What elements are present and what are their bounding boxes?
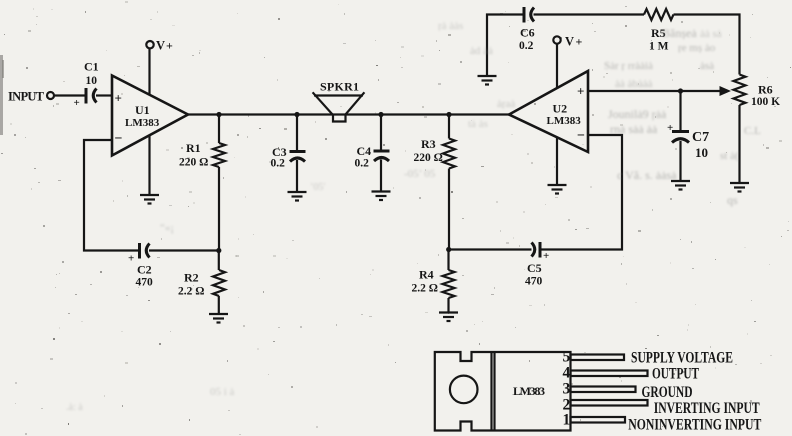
capacitor C6 value 0.2 <box>519 7 535 52</box>
node: junction to C7 <box>678 88 683 93</box>
capacitor C5 value 470 <box>525 242 549 288</box>
ground below U2 <box>548 185 567 194</box>
svg-text:220 Ω: 220 Ω <box>414 152 443 164</box>
svg-text:220 Ω: 220 Ω <box>179 157 208 169</box>
svg-text:R3: R3 <box>421 137 436 151</box>
ground below R6 <box>730 183 749 192</box>
wire: U1 inverting input feedback to C2 <box>84 140 139 251</box>
svg-text:SPKR1: SPKR1 <box>320 80 359 94</box>
svg-text:5: 5 <box>563 349 571 366</box>
wire: C3 to ground <box>296 160 298 192</box>
ground below C6 left leg <box>478 76 497 85</box>
ground below C3 <box>288 192 307 201</box>
svg-text:+: + <box>128 253 134 265</box>
svg-text:100 K: 100 K <box>751 96 780 108</box>
svg-text:C6: C6 <box>520 26 535 40</box>
input terminal INPUT <box>8 90 54 104</box>
wire: C2 to node A <box>149 249 219 251</box>
V+ terminal for U1 <box>146 39 173 53</box>
pin 4 OUTPUT <box>563 365 700 383</box>
node: bus junction to C3 <box>294 112 299 117</box>
resistor R5 value 1 M <box>644 9 674 53</box>
wire: C6 to R5 <box>534 13 645 15</box>
ground below C4 <box>372 192 391 201</box>
svg-text:V: V <box>156 39 165 53</box>
svg-text:C2: C2 <box>137 263 152 277</box>
svg-text:2.2 Ω: 2.2 Ω <box>178 286 204 298</box>
wire: bus to C3 <box>296 115 298 152</box>
speaker SPKR1 <box>313 80 365 122</box>
LM383 package mounting hole <box>450 376 478 404</box>
svg-text:LM383: LM383 <box>125 117 160 129</box>
resistor R1 value 220 ohm <box>179 141 225 169</box>
svg-text:R6: R6 <box>758 83 773 97</box>
svg-text:1: 1 <box>563 412 571 429</box>
pin 5 SUPPLY VOLTAGE <box>563 349 734 367</box>
ground below R2 <box>209 314 228 323</box>
svg-text:U1: U1 <box>135 103 150 117</box>
op-amp U2 LM383 <box>509 71 588 152</box>
wire: ground leg up to C6 <box>487 15 524 77</box>
svg-text:+: + <box>115 91 122 106</box>
LM383 package body label <box>513 384 545 398</box>
wire: V+ terminal to U2 top <box>556 44 558 90</box>
wire: bus to R1 <box>218 115 220 144</box>
node: bus junction to R3 <box>446 112 451 117</box>
svg-text:10: 10 <box>695 145 708 160</box>
svg-text:C5: C5 <box>527 261 542 275</box>
LM383 package outline with tab notches <box>435 352 571 431</box>
capacitor C7 value 10 <box>667 122 709 160</box>
wire: C7 to ground <box>679 141 681 181</box>
resistor R3 value 220 ohm <box>414 137 456 169</box>
svg-text:R2: R2 <box>184 271 199 285</box>
svg-text:+: + <box>667 122 673 134</box>
node: bus junction to C4 <box>378 112 383 117</box>
svg-text:NONINVERTING INPUT: NONINVERTING INPUT <box>628 417 761 434</box>
svg-text:10: 10 <box>86 75 98 87</box>
svg-text:470: 470 <box>525 276 543 288</box>
pin 3 GROUND <box>563 381 693 402</box>
capacitor C4 value 0.2 <box>355 144 390 170</box>
svg-text:C1: C1 <box>84 60 99 74</box>
wire: node A to R2 <box>218 251 220 271</box>
resistor R4 value 2.2 ohm <box>412 268 455 299</box>
svg-text:R4: R4 <box>419 268 434 282</box>
svg-text:0.2: 0.2 <box>271 158 286 170</box>
svg-text:C7: C7 <box>692 130 709 145</box>
svg-text:INVERTING INPUT: INVERTING INPUT <box>654 400 760 417</box>
wire: R2 to ground <box>218 296 220 314</box>
svg-text:OUTPUT: OUTPUT <box>652 366 699 383</box>
svg-text:3: 3 <box>563 381 571 398</box>
svg-text:+: + <box>577 84 584 99</box>
svg-text:4: 4 <box>563 365 571 382</box>
wire: R4 to ground <box>447 298 449 313</box>
wire: input terminal to C1 <box>54 94 86 96</box>
wire: U2 bottom to ground <box>556 138 558 186</box>
svg-text:+: + <box>576 35 583 49</box>
node A junction of R1 R2 C2 <box>216 248 221 253</box>
wire: node to C7 <box>679 91 681 132</box>
wire: R3 to node B <box>448 169 450 250</box>
node: U1 output junction to R1 <box>216 112 221 117</box>
svg-text:U2: U2 <box>553 102 568 116</box>
op-amp U1 LM383 <box>112 76 188 156</box>
node B junction of R3 R4 C5 <box>446 247 451 252</box>
resistor R2 value 2.2 ohm <box>178 270 225 298</box>
svg-text:LM383: LM383 <box>513 384 545 398</box>
wire: V+ terminal to U1 top <box>148 48 150 95</box>
wire: C1 to U1 noninverting input <box>96 94 112 96</box>
svg-text:C4: C4 <box>357 144 372 158</box>
wire: bus to R3 <box>448 115 450 139</box>
svg-text:0.2: 0.2 <box>355 158 370 170</box>
svg-text:+: + <box>543 250 549 262</box>
wire: R6 to ground <box>738 105 740 183</box>
wire: R1 to node A <box>218 167 220 251</box>
wire: C5 to U2 inverting input <box>540 135 622 250</box>
svg-text:+: + <box>74 97 80 109</box>
svg-text:GROUND: GROUND <box>642 384 693 401</box>
svg-text:R1: R1 <box>186 141 201 155</box>
wire: bus to C4 <box>380 115 382 151</box>
wire: node B to C5 <box>449 248 532 250</box>
svg-text:470: 470 <box>136 277 154 289</box>
pin 1 NONINVERTING INPUT <box>563 412 762 434</box>
ground below R4 <box>439 313 458 322</box>
svg-text:2.2 Ω: 2.2 Ω <box>412 283 438 295</box>
ground below C7 <box>671 181 690 190</box>
wiper arrow into R6 <box>720 86 732 96</box>
potentiometer R6 value 100 K <box>734 75 781 109</box>
svg-text:V: V <box>565 35 574 49</box>
capacitor C1 value 10 <box>74 60 99 110</box>
wire: U1 bottom to ground <box>148 136 150 196</box>
svg-text:1 M: 1 M <box>649 41 669 53</box>
LM383 package tab/body separation lines <box>492 352 495 431</box>
svg-text:−: − <box>115 132 123 147</box>
svg-text:−: − <box>577 129 585 144</box>
wire: R5 to R6 top <box>674 15 740 75</box>
svg-text:LM383: LM383 <box>547 115 582 127</box>
capacitor C3 value 0.2 <box>271 145 306 170</box>
ground below U1 <box>140 195 159 204</box>
wire: C4 to ground <box>380 160 382 192</box>
V+ terminal for U2 <box>553 35 582 49</box>
svg-text:INPUT: INPUT <box>8 90 45 104</box>
svg-text:0.2: 0.2 <box>519 40 534 52</box>
wire: U2 noninverting input to R6 wiper <box>588 90 721 92</box>
wire: output bus from U1 to U2 <box>188 113 509 115</box>
svg-text:+: + <box>166 39 173 53</box>
wire: node B to R4 <box>447 250 449 271</box>
svg-text:SUPPLY VOLTAGE: SUPPLY VOLTAGE <box>631 350 733 367</box>
capacitor C2 value 470 <box>128 243 153 289</box>
pin 2 INVERTING INPUT <box>563 397 761 418</box>
